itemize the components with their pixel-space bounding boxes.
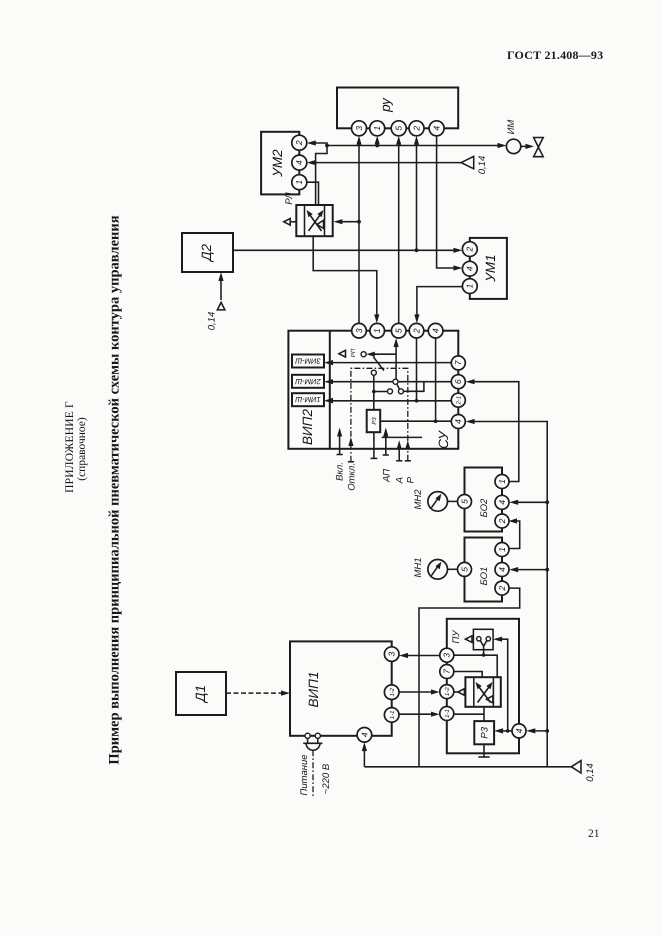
svg-text:0,14: 0,14 <box>477 156 488 175</box>
unit БО2 box <box>465 468 503 532</box>
power supply plug symbol <box>307 738 309 743</box>
pin 2 of РУ <box>409 121 424 136</box>
svg-text:2: 2 <box>465 246 475 252</box>
svg-text:1: 1 <box>372 328 382 333</box>
pin 1 of УМ1 <box>462 279 477 294</box>
wire: Р3 vent stub with T-bar <box>483 744 485 757</box>
wire: power supply lead <box>312 750 314 797</box>
svg-text:4: 4 <box>359 732 369 737</box>
svg-text:7: 7 <box>453 360 463 365</box>
pin 2 of УМ2 <box>292 135 307 150</box>
contact C <box>393 379 398 384</box>
svg-text:4: 4 <box>497 500 507 505</box>
svg-text:4: 4 <box>453 419 463 424</box>
divider between ВИП2 and СУ <box>329 331 331 449</box>
port 6 of СУ <box>451 375 465 389</box>
svg-text:РЛ: РЛ <box>284 192 295 205</box>
supply triangle 0,14 of Д2 <box>220 277 222 300</box>
control station box <box>447 619 519 754</box>
pin 5 of БО2 <box>458 495 472 509</box>
svg-text:4: 4 <box>514 728 524 733</box>
svg-text:ВИП1: ВИП1 <box>306 672 321 708</box>
reducer Р3 box of СУ <box>367 410 381 432</box>
svg-text:Откл.: Откл. <box>346 463 357 491</box>
sensor D1 box <box>176 672 226 715</box>
wire: СУ pin 5 to РУ pin 5 <box>398 141 400 324</box>
svg-text:1-1: 1-1 <box>389 711 396 720</box>
contact B <box>371 370 376 375</box>
gauge МН2 <box>428 492 448 512</box>
wire: regulator output to valve ИМ <box>327 145 502 147</box>
svg-text:БО1: БО1 <box>479 567 490 586</box>
indicator box 3ИМ-Ш <box>292 355 324 368</box>
wire: branch to ПУ button <box>498 639 508 731</box>
signal arrow Откл (dash-dot) <box>350 448 352 462</box>
wire: МН1 to БО1 pin 5 <box>448 568 458 570</box>
supply source triangle 0,14 <box>571 761 581 773</box>
svg-text:А: А <box>395 477 406 484</box>
signal arrow Р <box>407 448 409 461</box>
svg-text:ПРИЛОЖЕНИЕ Г: ПРИЛОЖЕНИЕ Г <box>64 401 76 493</box>
svg-text:1: 1 <box>497 479 507 484</box>
svg-text:УМ2: УМ2 <box>270 149 285 178</box>
svg-text:~220 В: ~220 В <box>321 763 332 794</box>
wire: port 6 to indicator 2ИМ-Ш <box>329 381 451 383</box>
svg-text:3: 3 <box>354 328 364 333</box>
page header ГОСТ 21.408-93 <box>507 48 603 63</box>
contact A <box>361 352 366 357</box>
pin 4 of БО2 <box>495 495 509 509</box>
svg-text:5: 5 <box>459 567 469 572</box>
pin 5 of БО1 <box>458 562 472 576</box>
node on ИМ line <box>325 144 329 148</box>
pin 1 of БО2 <box>495 475 509 489</box>
wire: МН2 to БО2 pin 5 <box>448 500 458 502</box>
node on РУ pin 3 line <box>357 220 361 224</box>
pin 5 of РУ <box>391 121 406 136</box>
svg-text:3: 3 <box>354 126 364 131</box>
svg-text:АП: АП <box>381 469 392 483</box>
signal arrow Вкл <box>339 433 341 455</box>
svg-text:2: 2 <box>411 328 421 334</box>
indicator box 1ИМ-Ш <box>292 393 324 406</box>
pin 4 of СУ <box>428 323 443 338</box>
wire: port 4 to reducer Р3 of СУ <box>380 420 451 422</box>
svg-text:1: 1 <box>372 126 382 131</box>
svg-text:2: 2 <box>497 585 507 591</box>
pin 4 of ВИП1 <box>357 728 372 743</box>
pin 3 of РУ <box>352 121 367 136</box>
svg-text:Р: Р <box>405 476 416 483</box>
wire: БО2 pin 1 to СУ port 6 <box>471 382 519 482</box>
wire: port 7 to indicator 3ИМ-Ш <box>329 362 451 364</box>
svg-text:1-1: 1-1 <box>444 709 451 718</box>
wire: panel port 3 to ВИП1 pin 3 <box>404 655 440 657</box>
port 7 of station <box>440 665 454 679</box>
svg-text:3: 3 <box>387 651 397 656</box>
wire: switch common to СУ pin 5 <box>395 343 397 379</box>
pin 1 of БО1 <box>495 543 509 557</box>
pin 3 of ВИП1 <box>384 647 399 662</box>
bypass valve box in station <box>465 677 500 707</box>
seat mark in bypass valve <box>487 696 493 703</box>
svg-text:(справочное): (справочное) <box>76 417 88 481</box>
wire: branch to station port 4 <box>531 730 547 732</box>
wire: branch port 6 line to switch contact <box>403 382 424 392</box>
wire: branch to СУ pin 4 <box>435 338 437 421</box>
node on port 4 line <box>434 419 438 423</box>
node: supply to station port 4 <box>545 729 549 733</box>
regulator РУ box <box>337 88 458 129</box>
signal arrow АП <box>385 433 387 456</box>
switch blade A <box>373 357 384 371</box>
svg-text:4: 4 <box>294 160 304 165</box>
wire: РЛ output to СУ pin 1 <box>313 236 377 318</box>
wire: port 2-1 to indicator 1ИМ-Ш <box>329 400 451 402</box>
page number <box>588 828 600 840</box>
svg-text:0,14: 0,14 <box>585 763 596 782</box>
port 4 of СУ <box>451 415 465 429</box>
wire: branch to contact D <box>374 391 388 393</box>
wire: regulator line to contact A <box>371 353 397 355</box>
pin 5 of СУ <box>391 323 406 338</box>
contact E <box>398 389 403 394</box>
wire: ИМ to control valve <box>521 145 529 147</box>
svg-text:РП: РП <box>350 348 357 357</box>
wire: supply branch to ВИП1 pin 4 <box>363 747 365 767</box>
svg-text:4: 4 <box>431 328 441 333</box>
unit БО1 box <box>465 538 503 602</box>
push button ПУ box <box>473 629 493 649</box>
signal arrow А <box>398 445 400 461</box>
svg-text:3: 3 <box>442 653 452 658</box>
svg-text:Р3: Р3 <box>479 726 490 738</box>
svg-text:ИМ: ИМ <box>506 120 517 135</box>
port 7 of СУ <box>451 356 465 370</box>
pin 4 of БО1 <box>495 563 509 577</box>
pin 1 of УМ2 <box>292 175 307 190</box>
port 3 of station <box>440 648 454 662</box>
wire: port 4 to reducer Р3 <box>499 730 512 732</box>
node: supply to БО2 pin 4 <box>545 500 549 504</box>
wire: reducer Р3 to valve <box>483 707 485 721</box>
wire: station port 7 internal <box>454 672 482 678</box>
svg-text:5: 5 <box>459 499 469 504</box>
seat mark in РЛ <box>317 220 324 228</box>
amplifier УМ1 box <box>470 238 507 299</box>
svg-text:1: 1 <box>465 283 475 288</box>
svg-text:1: 1 <box>497 547 507 552</box>
pin 2 of СУ <box>409 323 424 338</box>
svg-text:Д1: Д1 <box>193 685 208 704</box>
svg-text:7: 7 <box>442 669 452 674</box>
contact D <box>388 389 393 394</box>
wire: БО1 pin 2 to supply header <box>419 588 520 767</box>
wire: node to relay РЛ <box>316 146 327 206</box>
wire: branch to БО2 pin 4 <box>514 501 547 503</box>
pin 1 of РУ <box>370 121 385 136</box>
svg-text:БО2: БО2 <box>479 498 490 517</box>
svg-text:6: 6 <box>453 379 463 384</box>
wire: ИМ line to РУ pin 1 <box>376 141 378 146</box>
svg-text:ПУ: ПУ <box>451 630 462 644</box>
wire: СУ pin 2 to port 2-1 line <box>416 338 418 401</box>
wire: branch to БО1 pin 4 <box>514 569 547 571</box>
pin 1-1 of ВИП1 <box>384 708 399 723</box>
pin 2 of БО2 <box>495 514 509 528</box>
svg-text:СУ: СУ <box>436 430 451 449</box>
node on ИМ line at РУ pin 1 <box>375 144 379 148</box>
control valve body (bowtie) <box>534 138 544 157</box>
wire: УМ1 pin 1 to СУ pin 2 <box>417 287 463 319</box>
svg-text:2-1: 2-1 <box>456 396 463 406</box>
svg-text:Д2: Д2 <box>199 244 214 264</box>
svg-text:МН1: МН1 <box>413 557 424 577</box>
supply triangle 0,14 near РУ <box>461 156 474 168</box>
svg-text:4: 4 <box>497 567 507 572</box>
wire: button to station line 3 <box>483 646 485 655</box>
pin 4 of УМ2 <box>292 155 307 170</box>
node: Д2 line to РУ pin 2 <box>415 248 419 252</box>
wire: station port 3 internal <box>454 655 497 677</box>
port 1-2 of station <box>440 685 454 699</box>
pin 2 of УМ1 <box>462 242 477 257</box>
svg-text:Питание: Питание <box>299 754 310 795</box>
actuator ИМ circle <box>506 139 520 153</box>
wire: supply 0,14 to УМ2 pin 4 <box>312 162 461 164</box>
svg-text:0,14: 0,14 <box>207 312 218 331</box>
pin 4 of РУ <box>429 121 444 136</box>
indicator box 2ИМ-Ш <box>292 375 324 388</box>
device ВИП1 box <box>290 641 392 735</box>
svg-text:Р3: Р3 <box>371 417 378 425</box>
relay РЛ box <box>296 205 332 236</box>
svg-text:Пример выполнения принципиальн: Пример выполнения принципиальной пневмат… <box>107 215 123 764</box>
svg-text:5: 5 <box>394 126 404 131</box>
svg-text:2: 2 <box>411 126 421 132</box>
pin 3 of СУ (to РУ) <box>352 323 367 338</box>
svg-text:2ИМ-Ш: 2ИМ-Ш <box>295 377 322 386</box>
dash-dot frame of switch group <box>351 368 408 449</box>
pin 1 of СУ <box>370 323 385 338</box>
svg-text:ру: ру <box>378 97 393 113</box>
pin 2 of БО1 <box>495 581 509 595</box>
svg-text:1ИМ-Ш: 1ИМ-Ш <box>295 395 321 404</box>
wire: dashed link Д1 to ВИП1 <box>226 692 282 694</box>
port 2-1 of СУ <box>451 393 465 407</box>
push button contacts <box>477 637 481 641</box>
wire: ВИП1 pin 1-2 to panel port 1-2 <box>399 691 435 693</box>
svg-text:2: 2 <box>497 518 507 524</box>
wire: Р3 of СУ vent stub <box>373 432 375 458</box>
node on line 3 <box>482 653 486 657</box>
vent triangle of ПУ <box>465 636 472 643</box>
svg-text:5: 5 <box>394 328 404 333</box>
vent triangle РП <box>339 350 346 357</box>
wire: Д2 node to РУ pin 2 <box>416 141 418 251</box>
pin 4 of УМ1 <box>462 261 477 276</box>
device ВИП2 / СУ combined box <box>288 331 458 449</box>
wire: Д2 output to УМ1 pin 2 <box>233 249 457 251</box>
wire: РЛ to РУ pin 3 line <box>338 221 359 223</box>
pin 1-2 of ВИП1 <box>384 685 399 700</box>
wire: РУ pin 4 to УМ1 pin 4 <box>437 136 458 268</box>
wire: to УМ2 pin 2 from ИМ line node <box>312 143 327 146</box>
gauge МН1 <box>428 560 448 580</box>
wire: ВИП1 pin 1-1 to panel port 1-1 <box>399 713 435 715</box>
internal manifold bar <box>382 436 423 438</box>
power supply terminals of ВИП1 <box>305 733 310 738</box>
port 4 of station <box>512 724 526 738</box>
crossed arrows in РЛ <box>309 213 322 231</box>
svg-text:4: 4 <box>465 266 475 271</box>
crossed arrows in valve <box>478 685 491 703</box>
svg-text:1-2: 1-2 <box>389 687 396 696</box>
node: supply to БО1 pin 4 <box>545 568 549 572</box>
amplifier УМ2 box <box>261 132 299 195</box>
wire with vent triangle: port 1-2 to valve <box>454 691 458 693</box>
wire: supply run to СУ port 4 <box>471 422 548 767</box>
switch blade C-E <box>397 384 400 390</box>
wire: СУ pin 3 to РУ pin 3 <box>358 141 360 324</box>
wire: Р3 to switch contact B <box>373 375 375 410</box>
svg-text:ВИП2: ВИП2 <box>300 409 315 445</box>
wire: БО1 pin 1 to БО2 pin 2 <box>509 521 520 549</box>
svg-text:1: 1 <box>294 180 304 185</box>
wire: УМ2 pin 1 to relay РЛ <box>307 182 319 205</box>
svg-text:МН2: МН2 <box>413 489 424 510</box>
node on Р3 line <box>372 390 376 394</box>
svg-text:УМ1: УМ1 <box>483 254 498 282</box>
svg-text:4: 4 <box>432 126 442 131</box>
node on port4 line <box>506 729 510 733</box>
svg-text:1-2: 1-2 <box>444 687 451 696</box>
reducer Р3 box of station <box>474 721 494 744</box>
wire: main air supply header <box>364 766 571 768</box>
svg-text:2: 2 <box>294 140 304 146</box>
node on port 2-1 line <box>415 399 419 403</box>
svg-text:3ИМ-Ш: 3ИМ-Ш <box>295 357 321 366</box>
wire: port 1-1 to reducer line <box>454 713 484 715</box>
vent triangle of РЛ <box>290 221 296 223</box>
port 1-1 of station <box>440 707 454 721</box>
svg-text:Вкл.: Вкл. <box>335 462 346 481</box>
sensor Д2 box <box>182 233 233 272</box>
